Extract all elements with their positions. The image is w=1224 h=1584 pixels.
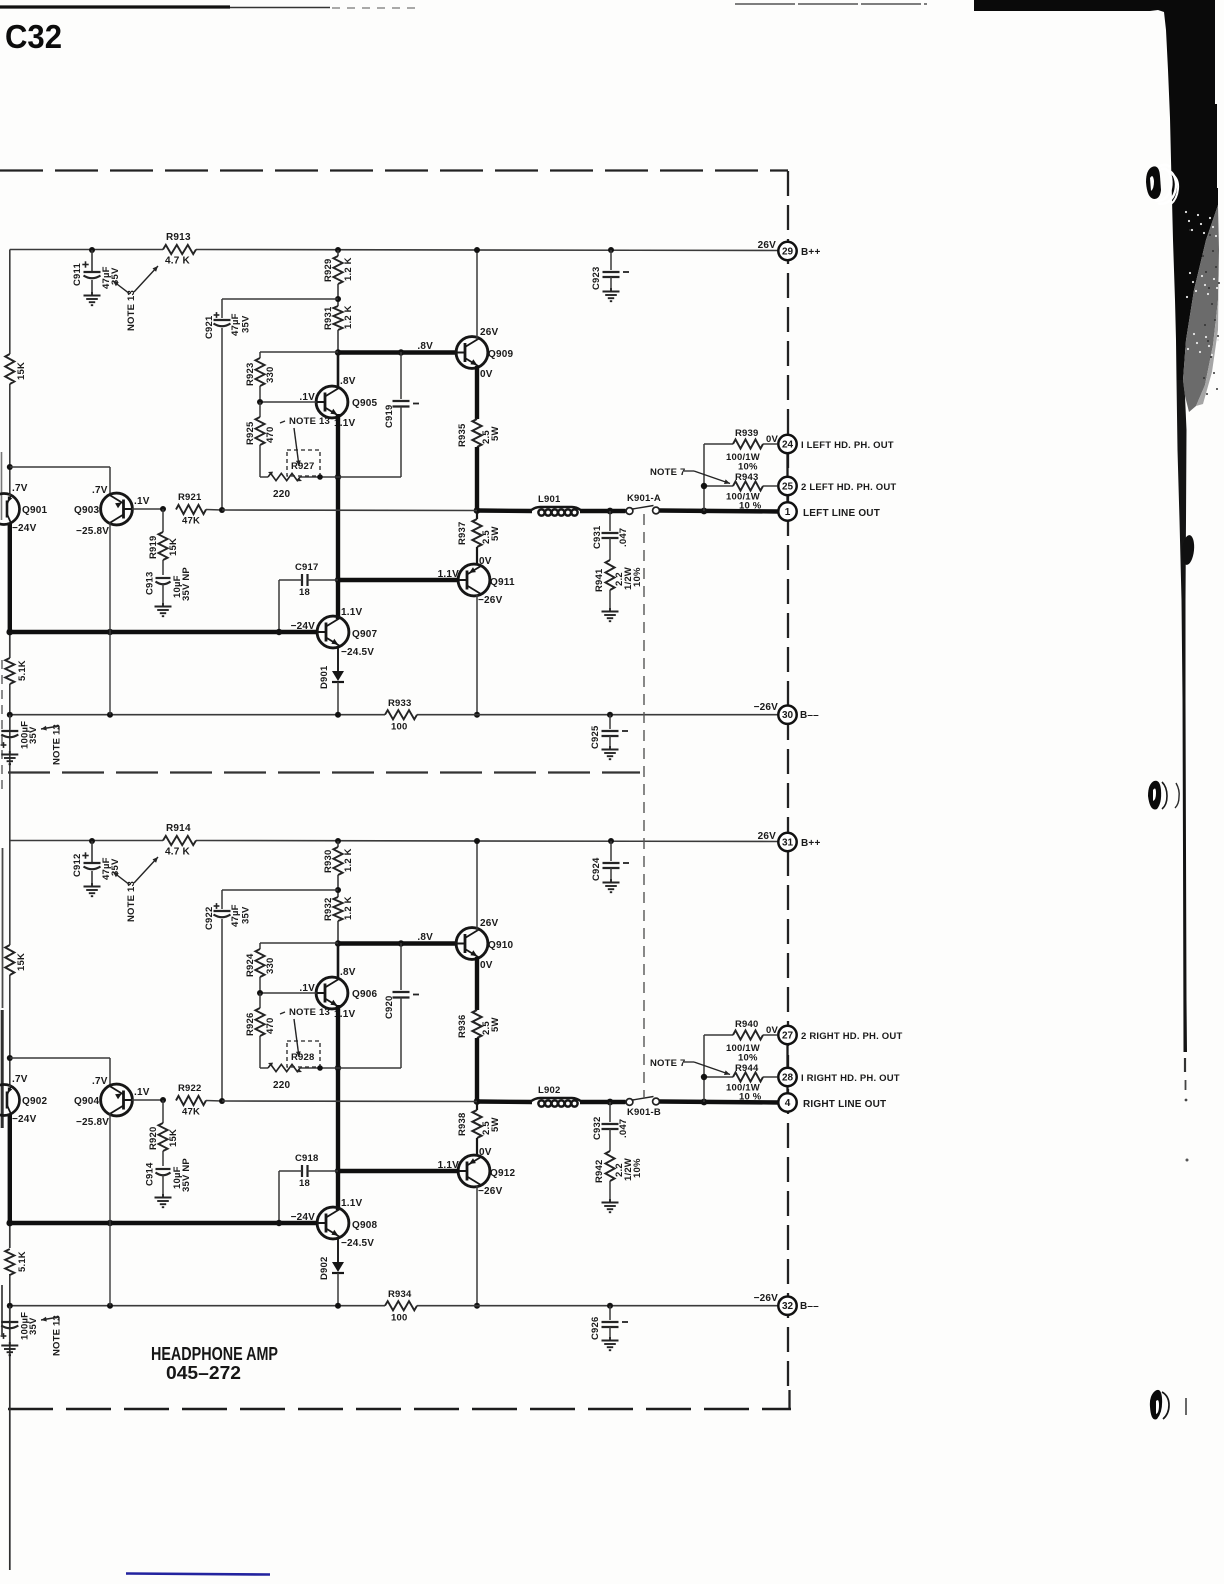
- wire Q904 collector down: [109, 1114, 111, 1306]
- resistor R937: [476, 511, 478, 520]
- page top edge line: [0, 5, 230, 8]
- wire R935 to line out: [475, 447, 479, 511]
- wire top B++ rail (29): [10, 249, 163, 251]
- wire switch to terminal 4: [660, 1102, 780, 1103]
- svg-text:R928: R928: [291, 1052, 315, 1063]
- wire Q911 base: [338, 578, 459, 582]
- wire Q911 emitter: [476, 595, 478, 715]
- resistor 15K (Q902 collector load): [5, 945, 14, 975]
- resistor R932: [333, 897, 342, 921]
- svg-text:1.1V: 1.1V: [341, 1198, 363, 1209]
- svg-text:5W: 5W: [490, 1117, 501, 1132]
- resistor R943: [704, 485, 733, 487]
- svg-text:−25.8V: −25.8V: [76, 1117, 109, 1128]
- svg-text:.8V: .8V: [340, 967, 356, 978]
- svg-text:−26V: −26V: [478, 595, 503, 606]
- wire Q903 collector down: [109, 523, 111, 715]
- svg-text:5.1K: 5.1K: [17, 1251, 28, 1272]
- svg-text:R936: R936: [457, 1014, 468, 1038]
- capacitor C926: [609, 1306, 611, 1320]
- wire Q905 collector: [337, 352, 340, 389]
- svg-text:47µF: 47µF: [230, 904, 241, 927]
- ground at C913: [162, 603, 164, 606]
- resistor R924: [260, 942, 338, 944]
- ground at 100uF: [9, 751, 11, 754]
- svg-text:.7V: .7V: [92, 1076, 108, 1087]
- wire Q906 base: [260, 992, 317, 994]
- svg-text:C921: C921: [204, 315, 215, 339]
- svg-text:R919: R919: [148, 535, 159, 559]
- wire -24V base line Q907: [10, 630, 317, 634]
- svg-text:C911: C911: [72, 262, 83, 286]
- resistor R926: [259, 993, 261, 1008]
- svg-text:B––: B––: [800, 710, 819, 721]
- svg-text:R930: R930: [323, 849, 334, 873]
- svg-text:Q905: Q905: [352, 398, 378, 409]
- wire L901 to switch: [580, 509, 626, 513]
- svg-text:32: 32: [782, 1301, 794, 1312]
- resistor 5.1K (Q901 emitter): [5, 658, 14, 684]
- svg-text:C919: C919: [384, 404, 395, 428]
- potentiometer R927: [287, 450, 320, 476]
- resistor R936: [472, 1010, 481, 1038]
- node R929/R931: [337, 284, 339, 306]
- transistor Q909: [456, 337, 488, 369]
- svg-text:D902: D902: [319, 1256, 330, 1280]
- wire bottom B-- rail (30): [10, 714, 385, 716]
- svg-text:28: 28: [782, 1073, 794, 1084]
- resistor R931: [333, 306, 342, 330]
- wire R925 bottom row: [260, 476, 268, 478]
- wire L902 to switch: [580, 1100, 626, 1104]
- wire line-out to L901: [477, 508, 532, 513]
- svg-text:100: 100: [391, 1313, 407, 1324]
- wire Q909 collector: [476, 250, 478, 340]
- node Q904 branch: [7, 1055, 13, 1061]
- svg-text:R935: R935: [457, 423, 468, 447]
- transistor Q908: [317, 1207, 349, 1239]
- svg-text:C920: C920: [384, 995, 395, 1019]
- ground at C914: [162, 1194, 164, 1197]
- wire Q905 base: [260, 401, 317, 403]
- svg-text:26V: 26V: [480, 918, 499, 929]
- channel separator dashed line: [8, 771, 640, 773]
- svg-text:R923: R923: [245, 362, 256, 386]
- frame bottom dashed border: [8, 1408, 791, 1411]
- svg-text:C924: C924: [591, 857, 602, 881]
- scan band tail: [1177, 380, 1188, 1052]
- svg-text:35V: 35V: [28, 726, 39, 744]
- wire R926 bottom row: [260, 1067, 268, 1069]
- svg-text:.7V: .7V: [12, 483, 28, 494]
- svg-text:.1V: .1V: [134, 1087, 150, 1098]
- ground at C912: [91, 883, 93, 886]
- resistor R934: [385, 1301, 417, 1310]
- wire Q901 emitter thick: [8, 523, 12, 633]
- transistor Q911: [458, 564, 490, 596]
- svg-text:R939: R939: [735, 428, 759, 439]
- transistor Q904: [101, 1084, 133, 1116]
- svg-text:D901: D901: [319, 665, 330, 689]
- svg-text:2 RIGHT HD. PH. OUT: 2 RIGHT HD. PH. OUT: [801, 1031, 902, 1042]
- svg-text:−24.5V: −24.5V: [341, 647, 374, 658]
- svg-text:R922: R922: [178, 1083, 202, 1094]
- wire headphone resistor junction: [703, 444, 705, 511]
- svg-text:1.2 K: 1.2 K: [343, 848, 354, 872]
- svg-text:.8V: .8V: [417, 341, 433, 352]
- svg-text:RIGHT LINE OUT: RIGHT LINE OUT: [803, 1099, 886, 1110]
- svg-text:35V NP: 35V NP: [181, 567, 192, 601]
- transistor Q902: [0, 1085, 20, 1116]
- svg-text:15K: 15K: [168, 1129, 179, 1147]
- svg-text:R913: R913: [166, 232, 191, 243]
- transistor Q905: [316, 386, 348, 418]
- wire Q903 base to node: [132, 508, 163, 510]
- svg-text:C932: C932: [592, 1116, 603, 1140]
- svg-text:5W: 5W: [490, 1017, 501, 1032]
- terminal 1 line out: [778, 502, 796, 520]
- transistor Q903: [101, 493, 133, 525]
- svg-text:NOTE 7: NOTE 7: [650, 467, 686, 478]
- ground at C924: [610, 879, 612, 882]
- resistor R923: [260, 351, 338, 353]
- left rail vertical wire: [9, 250, 11, 355]
- svg-text:B––: B––: [800, 1301, 819, 1312]
- svg-text:0V: 0V: [480, 369, 493, 380]
- capacitor C924: [608, 838, 614, 844]
- scan band speckle fade: [1183, 205, 1219, 412]
- wire line-out to L902: [477, 1099, 532, 1104]
- frame right dashed border: [787, 171, 789, 1390]
- svg-text:5W: 5W: [490, 426, 501, 441]
- svg-text:R941: R941: [594, 568, 605, 592]
- dashed link K901-A to K901-B: [643, 514, 645, 1098]
- svg-text:31: 31: [782, 838, 794, 849]
- svg-text:−25.8V: −25.8V: [76, 526, 109, 537]
- svg-text:R921: R921: [178, 492, 202, 503]
- svg-text:29: 29: [782, 247, 794, 258]
- svg-text:NOTE 13: NOTE 13: [289, 416, 330, 427]
- svg-text:25: 25: [782, 482, 794, 493]
- svg-text:220: 220: [273, 1080, 291, 1091]
- svg-text:470: 470: [265, 427, 276, 443]
- svg-text:26V: 26V: [758, 831, 777, 842]
- svg-text:Q907: Q907: [352, 629, 378, 640]
- capacitor 100uF (lower): [9, 1306, 11, 1320]
- svg-text:R933: R933: [388, 698, 412, 709]
- capacitor C932: [609, 1102, 611, 1122]
- node R923/R925: [257, 399, 263, 405]
- wire Q906 collector: [337, 943, 340, 980]
- svg-text:0V: 0V: [479, 1147, 492, 1158]
- svg-text:.8V: .8V: [340, 376, 356, 387]
- svg-text:C926: C926: [590, 1316, 601, 1340]
- resistor 5.1K (Q902 emitter): [5, 1249, 14, 1275]
- svg-text:26V: 26V: [758, 240, 777, 251]
- ground at C911: [91, 292, 93, 295]
- svg-text:Q904: Q904: [74, 1096, 100, 1107]
- svg-text:C923: C923: [591, 266, 602, 290]
- wire R936 to line out: [475, 1038, 479, 1102]
- svg-text:R932: R932: [323, 897, 334, 921]
- svg-text:.047: .047: [618, 528, 629, 547]
- resistor R944: [704, 1076, 733, 1078]
- svg-text:R943: R943: [735, 472, 759, 483]
- wire Q910 collector: [476, 841, 478, 931]
- resistor 15K (Q901 collector load): [5, 354, 14, 384]
- svg-text:−24.5V: −24.5V: [341, 1238, 374, 1249]
- svg-text:R937: R937: [457, 521, 468, 545]
- resistor R925: [259, 402, 261, 417]
- relay contact K901-B: [626, 1099, 633, 1106]
- wire top B++ rail (31): [10, 840, 163, 842]
- svg-text:15K: 15K: [16, 362, 27, 380]
- svg-text:Q909: Q909: [488, 349, 514, 360]
- svg-text:L902: L902: [538, 1085, 560, 1096]
- svg-text:.7V: .7V: [92, 485, 108, 496]
- svg-text:R920: R920: [148, 1126, 159, 1150]
- svg-text:1.2 K: 1.2 K: [343, 257, 354, 281]
- capacitor C925: [609, 715, 611, 729]
- svg-text:27: 27: [782, 1031, 794, 1042]
- capacitor C917: [301, 574, 303, 586]
- resistor R919: [162, 509, 164, 532]
- svg-text:R914: R914: [166, 823, 191, 834]
- svg-text:10%: 10%: [632, 1158, 643, 1178]
- wire Q904 base to node: [132, 1099, 163, 1101]
- svg-text:15K: 15K: [168, 538, 179, 556]
- svg-text:HEADPHONE AMP: HEADPHONE AMP: [151, 1343, 278, 1364]
- capacitor 100uF (upper): [9, 715, 11, 729]
- svg-text:R934: R934: [388, 1289, 412, 1300]
- wire headphone resistor junction: [703, 1035, 705, 1102]
- svg-text:0V: 0V: [766, 434, 778, 445]
- svg-text:5W: 5W: [490, 526, 501, 541]
- resistor R922: [176, 1096, 206, 1105]
- svg-text:NOTE 13: NOTE 13: [52, 1315, 63, 1356]
- svg-text:0V: 0V: [766, 1025, 778, 1036]
- svg-text:K901-B: K901-B: [627, 1107, 661, 1118]
- wire Q902 top: [9, 1085, 11, 1087]
- ground at C925: [609, 746, 611, 749]
- svg-text:Q908: Q908: [352, 1220, 378, 1231]
- potentiometer R928: [287, 1041, 320, 1067]
- scan grommet 1: [1146, 166, 1161, 199]
- capacitor C912: [89, 838, 95, 844]
- svg-text:24: 24: [782, 440, 794, 451]
- ground at 100uF: [9, 1342, 11, 1345]
- svg-text:Q901: Q901: [22, 505, 48, 516]
- svg-text:0V: 0V: [479, 556, 492, 567]
- svg-text:470: 470: [265, 1018, 276, 1034]
- svg-text:1: 1: [785, 507, 791, 518]
- svg-text:LEFT LINE OUT: LEFT LINE OUT: [803, 508, 880, 519]
- transistor Q906: [316, 977, 348, 1009]
- wire Q905 emitter: [336, 414, 340, 619]
- svg-text:NOTE 13: NOTE 13: [52, 724, 63, 765]
- svg-text:330: 330: [265, 958, 276, 974]
- svg-text:220: 220: [273, 489, 291, 500]
- wire line-out mid: [222, 1100, 477, 1103]
- capacitor C918: [301, 1165, 303, 1177]
- svg-text:10 %: 10 %: [739, 501, 762, 512]
- svg-text:10%: 10%: [632, 567, 643, 587]
- svg-text:R925: R925: [245, 421, 256, 445]
- diode D902: [337, 1237, 339, 1262]
- svg-text:18: 18: [299, 1178, 310, 1189]
- svg-text:NOTE 13: NOTE 13: [126, 290, 137, 331]
- frame top dashed border: [0, 169, 788, 171]
- svg-text:C913: C913: [145, 571, 156, 595]
- svg-text:C918: C918: [295, 1153, 319, 1164]
- svg-text:.8V: .8V: [417, 932, 433, 943]
- svg-text:.7V: .7V: [12, 1074, 28, 1085]
- svg-text:4: 4: [785, 1098, 791, 1109]
- node R924/R926: [257, 990, 263, 996]
- ground at R941: [609, 608, 611, 611]
- resistor R938: [476, 1102, 478, 1111]
- ground at C926: [609, 1337, 611, 1340]
- svg-text:C917: C917: [295, 562, 319, 573]
- svg-text:1.2 K: 1.2 K: [343, 305, 354, 329]
- capacitor C913/R919: [156, 577, 171, 579]
- wire base node to Q910: [338, 941, 457, 945]
- svg-text:R927: R927: [291, 461, 315, 472]
- svg-text:C925: C925: [590, 725, 601, 749]
- svg-text:47K: 47K: [182, 516, 200, 527]
- scan grommet 2: [1148, 781, 1161, 810]
- svg-text:30: 30: [782, 710, 794, 721]
- capacitor C931: [609, 511, 611, 531]
- node C922 junction: [219, 1098, 225, 1104]
- svg-text:47K: 47K: [182, 1107, 200, 1118]
- resistor R935: [472, 419, 481, 447]
- svg-text:.1V: .1V: [134, 496, 150, 507]
- wire Q901 top: [9, 494, 11, 496]
- capacitor C913/R920: [156, 1168, 171, 1170]
- svg-text:C922: C922: [204, 906, 215, 930]
- relay contact K901-A: [626, 508, 633, 515]
- resistor R920: [162, 1100, 164, 1123]
- terminal 4 line out: [778, 1093, 796, 1111]
- svg-text:.047: .047: [618, 1119, 629, 1138]
- resistor R941: [605, 560, 614, 590]
- transistor Q901: [0, 494, 20, 525]
- svg-text:0V: 0V: [480, 960, 493, 971]
- svg-text:−26V: −26V: [754, 702, 779, 713]
- wire Q912 base: [338, 1169, 459, 1173]
- svg-text:B++: B++: [801, 247, 821, 258]
- scan grommet 3: [1150, 1390, 1162, 1420]
- svg-text:045–272: 045–272: [166, 1363, 241, 1383]
- svg-text:100: 100: [391, 722, 407, 733]
- svg-text:Q910: Q910: [488, 940, 514, 951]
- svg-text:Q903: Q903: [74, 505, 100, 516]
- svg-text:−26V: −26V: [478, 1186, 503, 1197]
- resistor R939: [704, 443, 733, 445]
- svg-text:I LEFT HD. PH. OUT: I LEFT HD. PH. OUT: [801, 440, 894, 451]
- svg-text:35V: 35V: [241, 906, 252, 924]
- capacitor C920: [400, 943, 402, 990]
- svg-text:10%: 10%: [738, 1053, 758, 1064]
- resistor R914: [163, 836, 196, 845]
- wire -24V base line Q908: [10, 1221, 317, 1225]
- svg-text:R938: R938: [457, 1112, 468, 1136]
- svg-text:330: 330: [265, 367, 276, 383]
- inductor L902: [530, 1098, 582, 1102]
- svg-text:4.7 K: 4.7 K: [165, 847, 190, 858]
- svg-text:2 LEFT HD. PH. OUT: 2 LEFT HD. PH. OUT: [801, 482, 896, 493]
- resistor R940: [704, 1034, 733, 1036]
- node R930/R932: [337, 875, 339, 897]
- svg-text:−26V: −26V: [754, 1293, 779, 1304]
- scan band blob: [1180, 534, 1195, 565]
- left edge smudge: [2, 848, 4, 1008]
- wire line-out mid: [222, 509, 477, 512]
- wire Q912 emitter: [476, 1186, 478, 1306]
- wire Q910 emitter: [475, 957, 479, 1010]
- ground at C923: [610, 288, 612, 291]
- svg-text:−24V: −24V: [12, 523, 37, 534]
- svg-text:35V: 35V: [241, 315, 252, 333]
- node Q903 branch: [7, 464, 13, 470]
- resistor R921: [176, 505, 206, 514]
- node C921 junction: [219, 507, 225, 513]
- capacitor C911: [89, 247, 95, 253]
- svg-text:C912: C912: [72, 853, 83, 877]
- capacitor C919: [400, 352, 402, 399]
- ground at R942: [609, 1199, 611, 1202]
- transistor Q912: [458, 1155, 490, 1187]
- svg-text:NOTE 7: NOTE 7: [650, 1058, 686, 1069]
- inductor L901: [530, 507, 582, 511]
- svg-text:R931: R931: [323, 306, 334, 330]
- svg-text:NOTE 13: NOTE 13: [126, 881, 137, 922]
- svg-text:1.2 K: 1.2 K: [343, 896, 354, 920]
- svg-text:B++: B++: [801, 838, 821, 849]
- wire Q909 emitter: [475, 366, 479, 419]
- svg-text:18: 18: [299, 587, 310, 598]
- terminal 25: [778, 477, 796, 495]
- svg-text:L901: L901: [538, 494, 561, 505]
- svg-text:10%: 10%: [738, 462, 758, 473]
- wire Q906 emitter: [336, 1005, 340, 1210]
- svg-text:Q912: Q912: [490, 1168, 516, 1179]
- svg-text:C914: C914: [145, 1162, 156, 1186]
- resistor R942: [605, 1151, 614, 1181]
- svg-text:1.1V: 1.1V: [341, 607, 363, 618]
- svg-text:C32: C32: [5, 18, 62, 55]
- wire bottom B-- rail (32): [10, 1305, 385, 1307]
- svg-text:C931: C931: [592, 525, 603, 549]
- capacitor C923: [608, 247, 614, 253]
- svg-text:Q911: Q911: [490, 577, 515, 588]
- svg-text:R926: R926: [245, 1012, 256, 1036]
- svg-text:5.1K: 5.1K: [17, 660, 28, 681]
- scan band solid block: [974, 0, 1218, 380]
- terminal 24: [786, 453, 788, 477]
- wire base node to Q909: [338, 350, 457, 354]
- resistor R929: [335, 247, 341, 253]
- wire Q902 emitter thick: [8, 1114, 12, 1224]
- svg-text:NOTE 13: NOTE 13: [289, 1007, 330, 1018]
- svg-text:Q906: Q906: [352, 989, 378, 1000]
- svg-text:R929: R929: [323, 258, 334, 282]
- terminal 28: [778, 1068, 796, 1086]
- svg-text:−24V: −24V: [12, 1114, 37, 1125]
- svg-text:I RIGHT HD. PH. OUT: I RIGHT HD. PH. OUT: [801, 1073, 900, 1084]
- blue pen mark: [126, 1574, 270, 1575]
